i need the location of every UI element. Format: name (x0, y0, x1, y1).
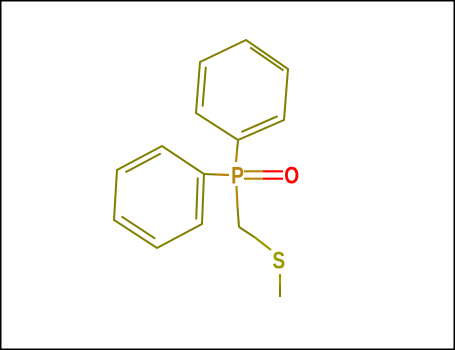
svg-text:O: O (284, 161, 299, 189)
svg-text:P: P (231, 161, 244, 189)
svg-text:S: S (272, 246, 285, 274)
